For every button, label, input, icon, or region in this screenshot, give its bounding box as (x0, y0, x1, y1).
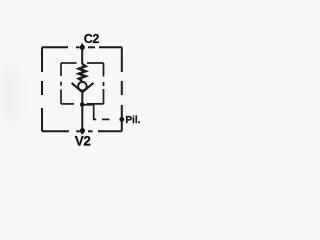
svg-text:V2: V2 (75, 133, 91, 148)
svg-text:C2: C2 (84, 32, 100, 46)
svg-text:Pil.: Pil. (125, 115, 140, 126)
